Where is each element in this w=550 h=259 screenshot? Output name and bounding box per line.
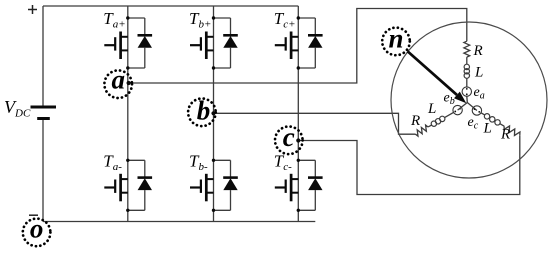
svg-text:b: b [197, 95, 211, 125]
svg-text:c: c [283, 122, 295, 152]
svg-text:ea: ea [474, 85, 485, 102]
svg-text:VDC: VDC [4, 97, 31, 120]
svg-text:Ta-: Ta- [103, 151, 122, 173]
svg-text:Tc-: Tc- [274, 151, 292, 173]
svg-text:Tb-: Tb- [189, 151, 208, 173]
svg-text:L: L [483, 121, 492, 137]
svg-text:R: R [500, 127, 510, 143]
svg-text:n: n [388, 24, 403, 54]
svg-text:L: L [474, 65, 483, 81]
svg-text:o: o [30, 213, 44, 243]
svg-text:Tb+: Tb+ [189, 9, 211, 31]
svg-text:R: R [410, 113, 420, 129]
svg-text:L: L [427, 101, 436, 117]
svg-text:Tc+: Tc+ [274, 9, 296, 31]
svg-text:a: a [111, 65, 125, 95]
svg-text:R: R [473, 43, 483, 59]
svg-text:ec: ec [468, 115, 479, 132]
svg-text:Ta+: Ta+ [103, 9, 125, 31]
